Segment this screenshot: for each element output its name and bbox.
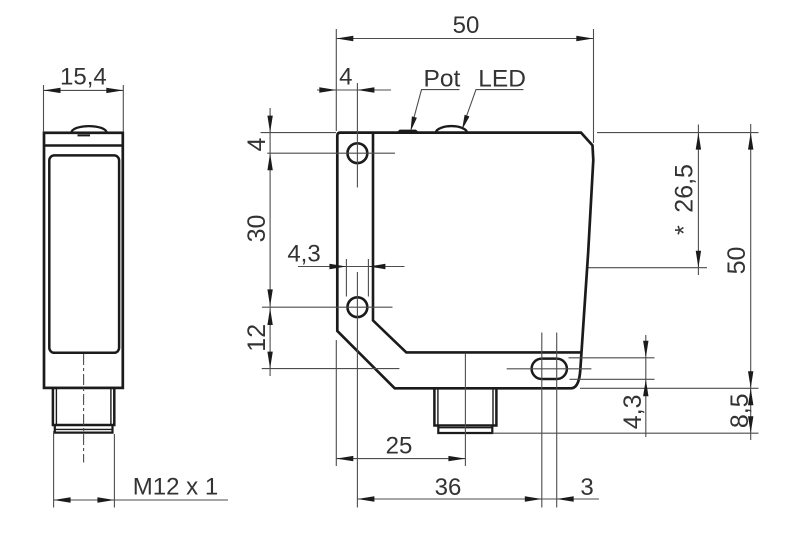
svg-text:* 26,5: * 26,5 <box>671 164 699 235</box>
dimension 8,5: bottom arrow <box>748 416 753 433</box>
right view: LED dome <box>436 126 467 132</box>
extension line top edge left <box>261 132 337 134</box>
dimension 15,4: left arrow <box>44 88 61 93</box>
Pot leader arrow <box>411 116 417 131</box>
left view: M12 connector body <box>53 388 114 425</box>
dimension 4 left / 30 shared arrow <box>267 153 272 170</box>
dimension 12: bottom arrow <box>267 352 272 369</box>
svg-text:4: 4 <box>243 137 271 151</box>
svg-text:50: 50 <box>453 12 480 39</box>
right view: housing outline <box>337 133 593 389</box>
dimension 4,3 slot: top arrow <box>643 341 648 358</box>
left column dimension line vertical <box>269 108 271 376</box>
svg-text:12: 12 <box>243 324 271 352</box>
dimension 50 top: left extension line <box>335 29 337 131</box>
dimension 15,4: dimension line <box>44 89 124 91</box>
svg-text:M12 x 1: M12 x 1 <box>133 473 218 500</box>
dimension 4 top: right arrow <box>357 87 374 92</box>
right view: connector end ring <box>438 426 492 434</box>
dimension 15,4: right arrow <box>106 88 123 93</box>
dimension 36: left arrow <box>357 496 374 501</box>
dimension M12x1: left extension line <box>53 431 55 508</box>
dimension 25: dimension line <box>336 458 465 460</box>
svg-text:LED: LED <box>478 65 526 92</box>
dimension 4,3 hole: dimension line <box>298 266 405 268</box>
dimension 50 top: left arrow <box>336 36 353 41</box>
left view: centerline <box>83 354 85 463</box>
dimension 4,3 hole: right tangent extension <box>367 259 369 297</box>
dimension 36: right arrow <box>525 496 542 501</box>
connector centerline right view <box>464 353 466 466</box>
dimension 36 and 3: dimension line <box>357 498 599 500</box>
left face extension line below <box>335 340 337 466</box>
left view: connector ring groove <box>55 428 113 430</box>
dimension 4,3 hole: left tangent extension <box>345 259 347 297</box>
right view: M12 connector body <box>434 388 496 425</box>
dimension 50 top: right extension line <box>593 29 595 143</box>
right view: potentiometer bump <box>398 131 418 133</box>
dimension 50 right: top arrow <box>748 133 753 150</box>
right view: mounting hole bottom <box>348 297 368 317</box>
dimension 15,4: left extension line <box>43 85 45 132</box>
LED leader arrow <box>462 115 470 130</box>
svg-text:3: 3 <box>580 474 593 501</box>
dimension 4,3 slot: dimension line vertical <box>645 335 647 437</box>
dimension 26,5: dimension line vertical <box>697 125 699 276</box>
left view: connector end ring <box>55 425 113 433</box>
right view: mounting hole top <box>348 143 368 163</box>
svg-text:4,3: 4,3 <box>287 241 320 268</box>
dimension M12x1: right extension line <box>113 434 115 508</box>
dimension 4,3 slot: top extension line <box>569 357 655 359</box>
left view: front window frame <box>49 155 119 352</box>
svg-text:15,4: 15,4 <box>60 63 107 90</box>
dimension M12x1: dimension line with tail <box>54 499 228 501</box>
hole top centerline vertical <box>356 83 358 188</box>
Pot leader line <box>413 90 460 122</box>
left view: dome base edge <box>78 134 91 136</box>
dimension 30: bottom arrow <box>267 289 272 306</box>
dimension 26,5: top arrow <box>696 133 701 150</box>
hole bottom centerline vertical <box>356 272 358 508</box>
slot right arc centerline vertical <box>556 333 558 508</box>
dimension 4 left: top arrow <box>267 116 272 133</box>
dimension 50 top: dimension line <box>336 38 593 40</box>
dimension 26,5: bottom arrow <box>696 251 701 268</box>
dimension M12x1: right arrow <box>97 497 114 502</box>
dimension 4,3 slot: bottom arrow <box>643 379 648 396</box>
dimension 15,4: right extension line <box>122 85 124 132</box>
extension line top edge right <box>597 132 759 134</box>
svg-text:Pot: Pot <box>424 65 461 92</box>
dimension 4,3 hole: left arrow <box>329 264 346 269</box>
right view: connector inner wall right <box>492 389 494 425</box>
svg-text:30: 30 <box>243 215 271 243</box>
right view: oval slot <box>532 359 567 379</box>
dimension 8,5: bottom extension line <box>493 432 759 434</box>
dimension 8,5: top arrow <box>748 388 753 405</box>
svg-text:4,3: 4,3 <box>619 395 647 430</box>
dimension M12x1: left arrow <box>54 497 71 502</box>
hole top centerline horizontal <box>267 152 395 154</box>
bottom edge extension line right <box>580 387 759 389</box>
dimension 26,5: bottom extension line <box>589 267 708 269</box>
dimension 3: right arrow <box>557 496 574 501</box>
extension line slot level left segment <box>262 368 400 370</box>
LED leader line <box>466 90 524 119</box>
svg-text:4: 4 <box>339 63 352 90</box>
dimension 12: top arrow <box>267 308 272 325</box>
svg-text:25: 25 <box>386 432 413 459</box>
dimension 50 right: dimension line vertical <box>750 124 752 440</box>
svg-text:8,5: 8,5 <box>726 393 754 428</box>
dimension 4,3 slot: bottom extension line <box>570 378 655 380</box>
dimension 4 top: dimension line <box>317 89 391 91</box>
dimension 4 top: left arrow <box>319 87 336 92</box>
dimension 25: left arrow <box>336 456 353 461</box>
svg-text:36: 36 <box>435 474 462 501</box>
right view: connector ring groove <box>438 427 492 429</box>
left view: cap parting line <box>44 144 123 147</box>
left view: housing outline <box>44 133 123 388</box>
right view: connector inner wall left <box>437 389 439 425</box>
dimension 4,3 hole: right arrow <box>368 264 385 269</box>
dimension 25: right arrow <box>448 456 465 461</box>
svg-text:50: 50 <box>723 247 751 275</box>
left view: connector inner wall left <box>55 389 57 425</box>
dimension 50 top: right arrow <box>576 36 593 41</box>
extension line hole bottom horizontal centerline <box>262 306 393 308</box>
left view: lens dome <box>72 126 107 132</box>
left view: connector inner wall right <box>110 389 112 425</box>
slot horizontal centerline right segment <box>507 368 592 370</box>
slot left arc centerline vertical <box>541 333 543 508</box>
right view: flange step edge and recess bottom edge <box>373 133 582 353</box>
dimension 50 right: bottom arrow <box>748 371 753 388</box>
